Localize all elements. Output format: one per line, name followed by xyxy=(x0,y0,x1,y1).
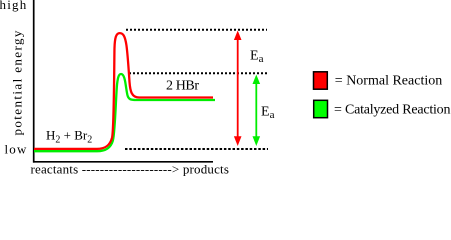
svg-text:high: high xyxy=(0,0,27,12)
svg-text:reactants --------------------: reactants --------------------> products xyxy=(31,162,230,177)
x-axis xyxy=(33,161,213,163)
svg-text:low: low xyxy=(5,142,28,157)
svg-text:Ea: Ea xyxy=(261,105,275,122)
dotted line bottom (reactant level) xyxy=(125,148,268,150)
svg-text:H2 + Br2: H2 + Br2 xyxy=(46,128,92,146)
svg-text:= Catalyzed Reaction: = Catalyzed Reaction xyxy=(334,102,450,117)
curve red (normal reaction) xyxy=(34,33,213,149)
arrow green Ea (double-headed) xyxy=(253,75,261,147)
svg-text:2 HBr: 2 HBr xyxy=(166,79,199,94)
y-axis xyxy=(33,0,35,163)
svg-text:potential energy: potential energy xyxy=(10,29,25,135)
arrow red Ea (double-headed) xyxy=(234,31,242,147)
legend swatch red xyxy=(314,72,328,89)
svg-text:= Normal Reaction: = Normal Reaction xyxy=(335,74,442,89)
legend swatch green xyxy=(314,100,328,117)
dotted line top (red peak level) xyxy=(126,29,267,31)
dotted line middle (green peak level) xyxy=(129,72,267,74)
curve green (catalyzed reaction) xyxy=(34,74,215,151)
svg-text:Ea: Ea xyxy=(250,49,264,66)
